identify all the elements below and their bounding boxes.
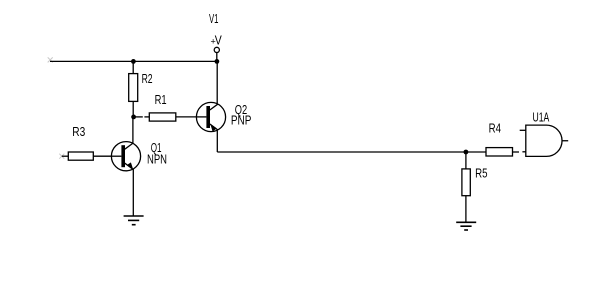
power terminal V1 circle bbox=[214, 47, 219, 52]
svg-text:R2: R2 bbox=[142, 71, 153, 86]
wire junction to R1 (with small break) bbox=[134, 116, 143, 118]
transistor Q2 PNP emitter arrow bbox=[210, 124, 217, 132]
wire R3 left lead bbox=[62, 155, 69, 157]
resistor R4 bbox=[486, 148, 513, 156]
wire R5 bottom stem bbox=[465, 196, 467, 223]
junction dot rail to R2 bbox=[131, 59, 136, 64]
junction dot at +V rail bbox=[215, 59, 220, 64]
junction dot R2/R1/Q1 node bbox=[131, 115, 136, 120]
resistor R2 bbox=[129, 74, 138, 102]
ground (Q1 emitter) bbox=[124, 216, 144, 225]
wire R5 top stem bbox=[465, 152, 467, 169]
open pin marker X (left end of top wire) bbox=[48, 57, 53, 62]
svg-text:R3: R3 bbox=[72, 124, 85, 139]
svg-text:V1: V1 bbox=[209, 11, 219, 26]
transistor Q1 base lead bbox=[112, 155, 122, 157]
transistor Q2 emitter diagonal bbox=[210, 124, 218, 130]
wire R4 to gate input (with small break) bbox=[513, 151, 520, 153]
transistor Q1 collector diagonal bbox=[125, 143, 133, 149]
transistor Q1 NPN emitter arrow bbox=[128, 162, 134, 169]
wire U1A output stub bbox=[562, 140, 568, 142]
wire top horizontal rail bbox=[50, 60, 217, 62]
resistor R3 bbox=[68, 152, 93, 160]
svg-text:U1A: U1A bbox=[533, 109, 550, 124]
transistor Q1 body circle bbox=[111, 142, 140, 171]
wire Q1 collector up to node bbox=[132, 117, 134, 143]
AND gate U1A body bbox=[526, 125, 562, 156]
wire Q1 emitter down to ground bbox=[132, 169, 134, 216]
transistor Q1 base bar bbox=[121, 145, 125, 167]
resistor R5 bbox=[462, 169, 470, 196]
transistor Q2 body circle bbox=[196, 102, 225, 131]
wire output horizontal bbox=[217, 151, 466, 153]
wire node to R4 bbox=[466, 151, 486, 153]
open pin marker X (left of R3) bbox=[59, 154, 64, 159]
wire R2 top stem bbox=[132, 61, 134, 73]
wire R1 to Q2 base bbox=[176, 116, 197, 118]
svg-text:NPN: NPN bbox=[147, 151, 167, 166]
wire Q2 emitter down bbox=[216, 130, 218, 152]
svg-text:V: V bbox=[215, 33, 222, 48]
transistor Q2 base bar bbox=[206, 106, 210, 128]
resistor R1 bbox=[149, 113, 176, 121]
transistor Q1 emitter diagonal bbox=[125, 163, 133, 169]
junction dot output/R5 bbox=[464, 150, 469, 155]
wire +V down to Q2 collector bbox=[216, 61, 218, 104]
wire R3 to Q1 base bbox=[93, 155, 111, 157]
svg-text:R1: R1 bbox=[155, 92, 167, 107]
wire R2 bottom stem bbox=[132, 101, 134, 117]
transistor Q2 base lead bbox=[197, 116, 207, 118]
wire V1 stem bbox=[216, 53, 218, 62]
svg-text:PNP: PNP bbox=[231, 113, 252, 128]
svg-text:R4: R4 bbox=[489, 120, 501, 135]
transistor Q2 collector diagonal bbox=[210, 104, 218, 110]
svg-text:R5: R5 bbox=[475, 166, 487, 181]
wire U1A top input stub bbox=[520, 129, 526, 131]
ground (R5) bbox=[456, 222, 476, 230]
